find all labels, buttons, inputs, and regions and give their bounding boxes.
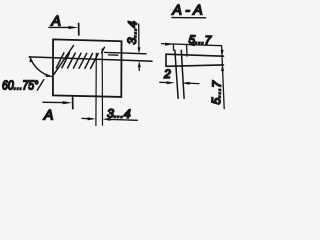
- extension line (right of 3...4 bottom): [101, 49, 103, 125]
- section label A (top): [49, 13, 79, 36]
- upper gap edge line: [105, 52, 147, 53]
- dimension 3...4 (right, vertical): [125, 20, 141, 70]
- svg-text:60...75°: 60...75°: [2, 80, 39, 93]
- section plate left cap: [165, 54, 167, 66]
- angle label 60...75: [2, 80, 44, 93]
- svg-text:A - A: A - A: [172, 2, 203, 18]
- svg-text:A: A: [43, 107, 53, 123]
- bevel line 60-75 deg: [54, 46, 74, 75]
- dimension 2 (section gap): [160, 67, 199, 85]
- title A - A: [172, 2, 206, 18]
- dimension 3...4 (bottom): [82, 106, 137, 121]
- svg-text:3...4: 3...4: [107, 106, 131, 121]
- section plate top: [166, 54, 224, 56]
- dimension 5...7 (top): [162, 34, 222, 56]
- section label A (bottom): [43, 97, 73, 122]
- svg-text:5...7: 5...7: [209, 79, 224, 104]
- wire: [49, 26, 72, 28]
- svg-text:2: 2: [163, 67, 171, 81]
- angle dimension arc: [30, 57, 52, 77]
- svg-text:5...7: 5...7: [188, 34, 211, 47]
- extension line (left of 3...4 bottom): [95, 53, 97, 125]
- plate rectangle (main view): [53, 39, 122, 97]
- short gap line: [109, 54, 118, 56]
- svg-text:A: A: [51, 13, 61, 29]
- hatch tip on extension: [102, 47, 105, 53]
- section plate bottom: [166, 65, 224, 66]
- dimension 5...7 (right, vertical): [209, 46, 224, 109]
- gap edge right (section): [181, 50, 184, 98]
- weld hatch strokes: [56, 53, 98, 69]
- gap edge left (section): [175, 50, 178, 98]
- seam line: [29, 57, 152, 61]
- svg-text:3...4: 3...4: [125, 20, 140, 44]
